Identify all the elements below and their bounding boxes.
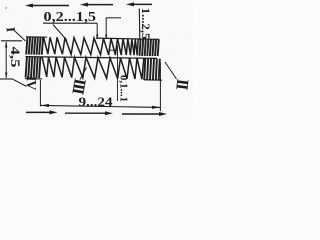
spring row2: open turns sawtooth [42, 57, 144, 79]
left arrowhead of 9...24 (points left) [41, 104, 49, 107]
spring row1: right closed turns (dense bars) [140, 39, 141, 56]
underline of 0,2...1,5 [43, 22, 97, 24]
bottom extension line of 4,5 dim [0, 78, 13, 80]
motion arrow top-middle, pointing left [86, 4, 113, 6]
motion arrow top-right, pointing left [132, 3, 152, 5]
extension line V1 from underline down to coil gap [96, 23, 98, 38]
extension line for 0,1...1 [117, 46, 119, 102]
motion arrow bottom-middle, pointing right [65, 112, 107, 114]
dimension line 9...24 [41, 105, 161, 107]
tick at top of 0,1...1 extension [109, 49, 118, 51]
leader from label III up into coils [80, 68, 87, 80]
motion arrow bottom-left, pointing right [26, 111, 52, 113]
extension line V2 down to coil gap [105, 18, 107, 39]
top extension line of 4,5 dim [1, 40, 22, 42]
right arrowhead of 9...24 (points right) [152, 106, 160, 109]
spring outline: top line (left segment over closed turns) [26, 36, 47, 38]
leader from label I to left coil end [13, 30, 25, 42]
leader from label II to right coil end [165, 62, 177, 79]
down arrowhead of 4,5 [5, 73, 7, 79]
speck (scan artifact) [5, 7, 7, 9]
spring row2: bottom edge under left dense coil [25, 78, 42, 80]
right extension line of 9...24 [159, 62, 161, 111]
down arrowhead of V2 [105, 35, 107, 40]
spring row2: left closed turns (dense bars) [26, 57, 27, 78]
spring row1: left closed turns (dense bars) [26, 37, 27, 55]
spring row2: bottom edge under right dense coil [144, 79, 162, 81]
spring outline: middle line [26, 57, 158, 59]
spring outline: top line (right segment) [96, 38, 159, 39]
vertical dimension line 4,5 [5, 42, 7, 78]
left extension line of 9...24 [39, 80, 41, 106]
motion arrow top-left (part I zone), pointing left [31, 5, 69, 7]
motion arrow bottom-right, pointing right [122, 113, 161, 115]
spring row1: open turns sawtooth [44, 37, 139, 55]
horizontal tick right of V2 [106, 17, 121, 19]
scanned technical drawing: variable-pitch coil spring with dimensions [0, 0, 193, 120]
leader/line to label IV [13, 79, 27, 86]
spring row2: right closed turns (dense bars) [144, 59, 145, 81]
down arrowhead of V1 [96, 35, 98, 40]
up arrowhead of 4,5 [5, 41, 7, 47]
leader from 0,2...1,5 into first coil gap [53, 25, 67, 41]
vertical underline/extension of 1...2,5 [138, 9, 141, 41]
